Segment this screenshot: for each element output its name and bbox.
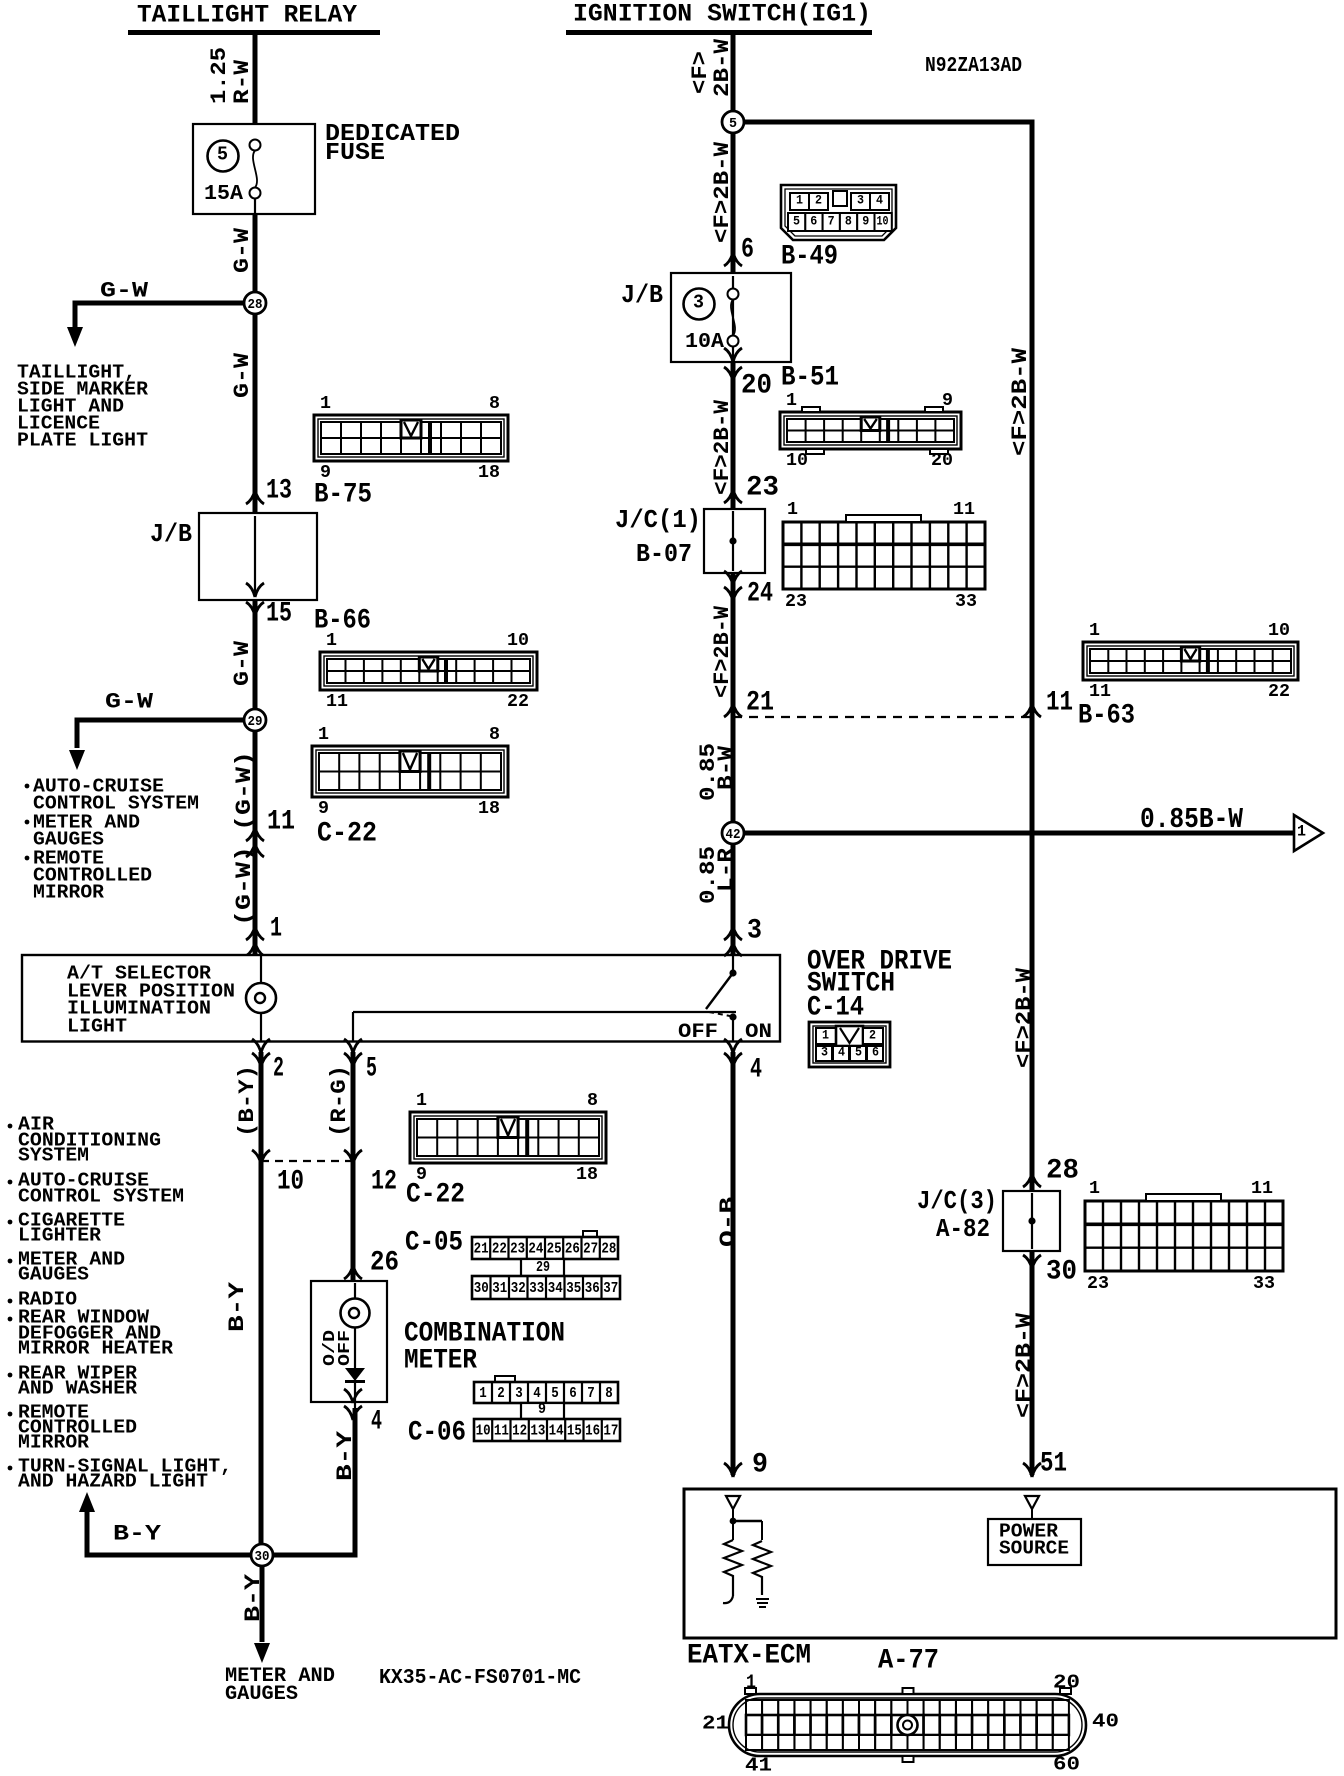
terminal triangle 9	[726, 1496, 740, 1509]
svg-text:B-63: B-63	[1078, 701, 1135, 732]
label <F>2B-W right c	[1012, 1312, 1037, 1418]
pin label 20	[741, 371, 772, 402]
pin label 3	[747, 916, 762, 947]
svg-text:30: 30	[1046, 1257, 1077, 1288]
svg-text:B-66: B-66	[314, 606, 371, 637]
label B-49	[781, 242, 838, 273]
svg-text:8: 8	[587, 1091, 598, 1111]
label ON	[745, 1021, 772, 1044]
pin label 1	[270, 914, 282, 945]
svg-text:FUSE: FUSE	[325, 140, 385, 167]
illumination lamp	[246, 983, 276, 1013]
pin label 11	[267, 807, 295, 838]
pin label 12	[371, 1167, 397, 1198]
svg-text:<F>2B-W: <F>2B-W	[710, 141, 735, 243]
svg-text:B-51: B-51	[781, 363, 839, 394]
wire 3 from node42 to switch	[731, 844, 736, 971]
svg-text:2B-W: 2B-W	[710, 38, 735, 97]
connector B-75	[314, 394, 508, 483]
label 0.85B-W horiz	[1140, 803, 1243, 836]
svg-text:15: 15	[567, 1422, 582, 1439]
svg-text:5: 5	[551, 1385, 559, 1402]
svg-text:(G-W): (G-W)	[232, 751, 257, 831]
connector C-14	[809, 1022, 890, 1067]
diode	[345, 1368, 365, 1382]
svg-text:23: 23	[746, 473, 779, 504]
svg-text:11: 11	[326, 692, 348, 712]
svg-text:22: 22	[507, 692, 529, 712]
svg-text:<F>2B-W: <F>2B-W	[1012, 967, 1037, 1068]
svg-text:5: 5	[217, 144, 228, 166]
label A-77	[878, 1646, 939, 1677]
label B-51	[781, 363, 839, 394]
svg-text:G-W: G-W	[230, 352, 255, 398]
pin 20 terminals	[724, 348, 742, 381]
wire into lamp	[260, 956, 262, 983]
svg-text:5: 5	[366, 1054, 377, 1085]
svg-text:7: 7	[587, 1385, 595, 1402]
svg-text:21: 21	[746, 688, 774, 719]
svg-text:7: 7	[828, 214, 835, 229]
wire 1.25R-W from taillight relay to fuse	[253, 35, 258, 126]
svg-text:G-W: G-W	[105, 690, 154, 715]
label J/B right	[621, 280, 663, 310]
svg-text:2: 2	[815, 193, 822, 208]
svg-text:12: 12	[371, 1167, 397, 1198]
label (B-Y) vertical	[235, 1065, 260, 1137]
wire G-W node28 to J/B	[253, 314, 258, 513]
svg-text:SOURCE: SOURCE	[999, 1538, 1069, 1560]
svg-text:10: 10	[786, 451, 808, 471]
svg-text:11: 11	[494, 1422, 509, 1439]
svg-text:33: 33	[1253, 1274, 1275, 1294]
connector B-07 grid	[783, 500, 985, 612]
svg-text:KX35-AC-FS0701-MC: KX35-AC-FS0701-MC	[379, 1667, 581, 1690]
bullet list auto-cruise meter mirror	[25, 776, 199, 904]
pin 24 terminals	[724, 571, 742, 601]
svg-text:B-Y: B-Y	[225, 1281, 250, 1332]
fuse F3 10A element	[728, 289, 739, 347]
label (R-G) vertical a	[327, 1065, 352, 1137]
svg-text:9: 9	[538, 1401, 546, 1418]
pin label 5	[366, 1054, 377, 1085]
svg-text:26: 26	[370, 1248, 399, 1279]
label A/T selector lever position illumination light	[67, 963, 235, 1038]
svg-text:21: 21	[474, 1240, 489, 1257]
label KX35-AC-FS0701-MC	[379, 1667, 581, 1690]
label (G-W) vertical e	[232, 846, 257, 926]
bullet list air conditioning etc	[8, 1114, 232, 1493]
label <F>2B-W seg3	[710, 605, 735, 698]
svg-text:16: 16	[585, 1422, 600, 1439]
svg-text:1: 1	[786, 391, 797, 411]
junction block J/B right box	[671, 273, 791, 362]
svg-text:11: 11	[953, 500, 975, 520]
label DEDICATED FUSE	[325, 121, 460, 167]
svg-text:ON: ON	[745, 1021, 772, 1044]
svg-text:AND HAZARD LIGHT: AND HAZARD LIGHT	[18, 1471, 208, 1493]
svg-text:2: 2	[869, 1028, 876, 1043]
svg-text:A-77: A-77	[878, 1646, 939, 1677]
connector B-63	[1083, 621, 1298, 702]
svg-text:8: 8	[845, 214, 852, 229]
svg-text:MIRROR: MIRROR	[18, 1432, 90, 1454]
label 1.25 R-W	[207, 47, 255, 104]
pin label 21	[746, 688, 774, 719]
svg-text:B-W: B-W	[714, 745, 739, 790]
label (G-W) vertical d	[232, 751, 257, 831]
terminal 12	[344, 1150, 362, 1164]
svg-text:EATX-ECM: EATX-ECM	[687, 1641, 811, 1672]
svg-text:3: 3	[693, 292, 704, 314]
svg-text:6: 6	[872, 1045, 879, 1060]
svg-text:1: 1	[326, 631, 337, 651]
svg-text:12: 12	[512, 1422, 527, 1439]
svg-text:B-75: B-75	[314, 480, 372, 511]
svg-text:(G-W): (G-W)	[232, 846, 257, 926]
wire inside box to switch	[353, 1012, 736, 1042]
svg-text:B-Y: B-Y	[113, 1522, 162, 1547]
svg-text:42: 42	[726, 827, 741, 843]
svg-text:8: 8	[489, 725, 500, 745]
svg-text:28: 28	[1046, 1156, 1079, 1187]
wire G-W fuse to node 28	[253, 214, 258, 292]
connector C-05	[472, 1231, 620, 1299]
svg-text:22: 22	[1268, 682, 1290, 702]
svg-text:23: 23	[1087, 1274, 1109, 1294]
wire B-Y from O/D to node30	[273, 1408, 355, 1558]
svg-text:17: 17	[603, 1422, 618, 1439]
svg-text:35: 35	[566, 1280, 581, 1297]
label <F>2B-W right a	[1008, 347, 1033, 456]
svg-text:23: 23	[510, 1240, 525, 1257]
svg-text:(B-Y): (B-Y)	[235, 1065, 260, 1137]
power source box	[988, 1509, 1081, 1565]
svg-text:J/B: J/B	[621, 280, 663, 310]
label OVER DRIVE SWITCH C-14	[807, 947, 952, 1024]
svg-text:20: 20	[1053, 1672, 1080, 1694]
svg-text:<F>2B-W: <F>2B-W	[710, 605, 735, 698]
svg-text:29: 29	[248, 714, 263, 730]
dedicated fuse box	[193, 124, 315, 214]
label 10A	[685, 331, 724, 354]
svg-text:B-49: B-49	[781, 242, 838, 273]
label OFF	[678, 1021, 718, 1044]
wire (F)2B-W right branch down	[1030, 120, 1035, 1192]
label G-W branch29	[105, 690, 154, 715]
svg-text:1: 1	[1089, 1179, 1100, 1199]
label O/D OFF vertical	[321, 1330, 355, 1366]
label G-W vertical b	[230, 352, 255, 398]
arrow to auto-cruise loads	[69, 750, 85, 770]
svg-text:L-R: L-R	[714, 847, 739, 892]
svg-text:4: 4	[533, 1385, 541, 1402]
O/D OFF indicator box	[311, 1281, 387, 1402]
svg-text:1: 1	[796, 193, 803, 208]
svg-text:28: 28	[601, 1240, 616, 1257]
svg-text:9: 9	[942, 391, 953, 411]
svg-text:6: 6	[569, 1385, 577, 1402]
svg-text:1: 1	[416, 1091, 427, 1111]
svg-text:MIRROR HEATER: MIRROR HEATER	[18, 1338, 174, 1360]
connector C-06	[474, 1376, 620, 1441]
label 0.85 B-W vertical	[696, 743, 739, 801]
svg-text:18: 18	[478, 799, 500, 819]
junction connector J/C(1) box	[704, 509, 765, 573]
svg-text:8: 8	[489, 394, 500, 414]
svg-text:AND WASHER: AND WASHER	[18, 1378, 138, 1400]
svg-text:11: 11	[1089, 682, 1111, 702]
pin 4 terminals bottom	[344, 1389, 362, 1420]
connector A-82 grid	[1085, 1179, 1283, 1294]
pin label 11 right	[1046, 688, 1073, 719]
svg-text:0.85B-W: 0.85B-W	[1140, 803, 1243, 836]
svg-text:34: 34	[548, 1280, 563, 1297]
node 29	[244, 709, 266, 731]
label taillight side marker	[17, 362, 149, 452]
svg-text:1: 1	[1089, 621, 1100, 641]
O/D OFF lamp	[341, 1299, 370, 1328]
wire (G-W) node29 to pin 11	[253, 731, 258, 955]
svg-text:C-14: C-14	[807, 993, 864, 1024]
svg-text:9: 9	[752, 1450, 768, 1481]
wire G-W branch left from node 28	[75, 301, 244, 329]
svg-text:IGNITION SWITCH(IG1): IGNITION SWITCH(IG1)	[573, 0, 871, 29]
connector B-49	[781, 185, 896, 240]
over drive switch lever	[706, 969, 737, 1041]
dashed link 10-12	[261, 1160, 353, 1162]
svg-text:(R-G): (R-G)	[327, 1065, 352, 1137]
svg-text:5: 5	[855, 1045, 862, 1060]
svg-text:36: 36	[585, 1280, 600, 1297]
label 0.85 L-R vertical	[696, 846, 739, 904]
pin 26 terminals	[344, 1265, 362, 1295]
svg-text:29: 29	[536, 1259, 550, 1276]
arrow to taillight loads	[67, 327, 83, 347]
svg-text:3: 3	[515, 1385, 523, 1402]
label B-Y vertical left	[225, 1281, 250, 1332]
A/T selector lever box	[22, 955, 780, 1042]
label N92ZA13AD	[925, 55, 1022, 78]
bus bar under IGNITION SWITCH	[566, 30, 872, 35]
svg-text:2: 2	[497, 1385, 505, 1402]
EATX-ECM box	[684, 1489, 1336, 1638]
svg-text:24: 24	[747, 579, 773, 610]
svg-text:OFF: OFF	[336, 1330, 355, 1366]
label B-Y vertical bottom	[241, 1573, 266, 1622]
svg-text:CONTROL SYSTEM: CONTROL SYSTEM	[18, 1186, 184, 1208]
pin 2 terminals	[252, 1039, 270, 1067]
pin 6 terminals	[724, 252, 742, 285]
fuse number circle 5	[208, 141, 239, 172]
pin label 51	[1040, 1449, 1067, 1480]
svg-text:B-07: B-07	[636, 539, 692, 569]
label <F> 2B-W top	[688, 38, 735, 97]
svg-text:C-22: C-22	[406, 1180, 465, 1211]
label C-22 second	[406, 1180, 465, 1211]
wire node5 to right branch	[744, 120, 1032, 125]
svg-text:40: 40	[1092, 1711, 1119, 1733]
svg-text:J/B: J/B	[150, 519, 192, 549]
svg-text:1: 1	[318, 725, 329, 745]
svg-text:11: 11	[1046, 688, 1073, 719]
wire node5 to J/B right	[731, 133, 736, 273]
pin label 2	[273, 1054, 284, 1085]
svg-text:10: 10	[1268, 621, 1290, 641]
label G-W vertical c	[230, 640, 255, 686]
svg-text:9: 9	[862, 214, 869, 229]
pin label 26	[370, 1248, 399, 1279]
node 28	[244, 292, 266, 314]
label <F>2B-W seg2	[710, 399, 735, 495]
label B-63	[1078, 701, 1135, 732]
arrow down meter and gauges	[254, 1643, 270, 1663]
svg-text:22: 22	[492, 1240, 507, 1257]
dashed link 21-11	[733, 716, 1032, 718]
svg-text:10A: 10A	[685, 331, 724, 354]
svg-text:2: 2	[273, 1054, 284, 1085]
pin label 6	[741, 235, 754, 266]
svg-text:21: 21	[702, 1713, 729, 1735]
svg-text:6: 6	[810, 214, 817, 229]
svg-text:G-W: G-W	[100, 279, 149, 304]
label J/B left	[150, 519, 192, 549]
svg-text:C-05: C-05	[405, 1228, 463, 1259]
pin 5 terminals	[344, 1039, 362, 1067]
pin 15 terminals	[246, 583, 264, 616]
svg-text:<F>2B-W: <F>2B-W	[1012, 1312, 1037, 1418]
svg-text:60: 60	[1053, 1754, 1080, 1776]
pin 28 terminal	[1023, 1173, 1041, 1187]
svg-text:23: 23	[785, 592, 807, 612]
node 30	[251, 1544, 273, 1566]
connector C-22 second	[410, 1091, 606, 1185]
svg-text:41: 41	[745, 1755, 772, 1776]
svg-text:B-Y: B-Y	[333, 1430, 358, 1481]
svg-text:SYSTEM: SYSTEM	[18, 1145, 89, 1167]
wire O-B down to EATX	[731, 1052, 736, 1475]
arrow connector 1 right	[1294, 815, 1323, 851]
pin label 9	[752, 1450, 768, 1481]
pin label 23	[746, 473, 779, 504]
label J/C(1) B-07	[615, 505, 701, 569]
svg-text:LIGHTER: LIGHTER	[18, 1225, 102, 1247]
svg-text:14: 14	[549, 1422, 564, 1439]
svg-text:18: 18	[576, 1165, 598, 1185]
wire (B-Y) pin2 down	[259, 1052, 264, 1544]
svg-text:6: 6	[741, 235, 754, 266]
terminal 11 right	[1023, 703, 1041, 717]
svg-text:51: 51	[1040, 1449, 1067, 1480]
pin 3 terminals	[724, 926, 742, 956]
wire B-Y node30 down	[260, 1566, 265, 1642]
svg-text:33: 33	[955, 592, 977, 612]
svg-text:GAUGES: GAUGES	[225, 1683, 298, 1706]
svg-text:1: 1	[746, 1672, 756, 1694]
svg-text:27: 27	[583, 1240, 598, 1257]
svg-text:10: 10	[507, 631, 529, 651]
bus bar under TAILLIGHT RELAY	[128, 30, 380, 35]
label C-05	[405, 1228, 463, 1259]
pin label 4 left	[371, 1407, 382, 1438]
pin label 24	[747, 579, 773, 610]
label B-66	[314, 606, 371, 637]
svg-text:10: 10	[277, 1167, 304, 1198]
svg-text:18: 18	[478, 463, 500, 483]
label G-W vertical a	[230, 227, 255, 273]
svg-text:LIGHT: LIGHT	[67, 1016, 127, 1038]
svg-text:10: 10	[476, 1422, 491, 1439]
label IGNITION SWITCH(IG1) title	[573, 0, 871, 29]
svg-text:C-06: C-06	[408, 1418, 466, 1449]
svg-text:33: 33	[529, 1280, 544, 1297]
svg-text:1: 1	[479, 1385, 487, 1402]
svg-text:4: 4	[838, 1045, 845, 1060]
pin 21 terminal	[724, 703, 742, 717]
terminal triangle 51	[1025, 1496, 1039, 1509]
node 42	[722, 822, 744, 844]
svg-text:3: 3	[857, 193, 864, 208]
svg-text:N92ZA13AD: N92ZA13AD	[925, 55, 1022, 78]
svg-text:3: 3	[747, 916, 762, 947]
svg-text:15: 15	[266, 599, 292, 630]
junction connector J/C(3) box	[1003, 1191, 1060, 1251]
label METER AND GAUGES	[225, 1665, 335, 1706]
svg-text:31: 31	[492, 1280, 507, 1297]
svg-text:1: 1	[1297, 823, 1306, 841]
label C-22 first	[317, 819, 377, 850]
svg-text:3: 3	[821, 1045, 828, 1060]
fuse circle 3	[684, 289, 715, 320]
pin 1 terminals	[246, 926, 264, 956]
svg-text:20: 20	[931, 451, 953, 471]
wire G-W branch left from node 29	[77, 718, 244, 749]
label 15A	[204, 183, 243, 206]
svg-text:1: 1	[270, 914, 282, 945]
svg-text:26: 26	[565, 1240, 580, 1257]
svg-text:G-W: G-W	[230, 227, 255, 273]
pin label 15	[266, 599, 292, 630]
svg-text:J/C(3): J/C(3)	[917, 1186, 997, 1216]
pin label 13	[266, 476, 292, 507]
svg-text:A-82: A-82	[936, 1214, 990, 1244]
pin label 10	[277, 1167, 304, 1198]
svg-text:13: 13	[530, 1422, 545, 1439]
wire J/C1 to node 42	[731, 573, 736, 822]
svg-text:15A: 15A	[204, 183, 243, 206]
wire J/B right to J/C1	[731, 362, 736, 509]
wire 0.85B-W to right edge	[744, 831, 1294, 836]
svg-text:MIRROR: MIRROR	[33, 882, 105, 904]
svg-text:METER: METER	[404, 1346, 477, 1377]
connector B-66	[320, 631, 537, 712]
svg-text:28: 28	[248, 297, 263, 313]
pin 13 terminals	[246, 490, 264, 523]
label O-B vertical	[716, 1197, 741, 1247]
fuse F5 15A element	[250, 140, 261, 215]
wire ignition to node 5	[731, 35, 736, 111]
label <F>2B-W seg1	[710, 141, 735, 243]
svg-text:1: 1	[320, 394, 331, 414]
svg-text:<F>2B-W: <F>2B-W	[1008, 347, 1033, 456]
svg-text:J/C(1): J/C(1)	[615, 505, 701, 535]
label COMBINATION METER	[404, 1319, 565, 1377]
junction block J/B left box	[199, 513, 317, 600]
svg-text:4: 4	[876, 193, 883, 208]
node 5	[722, 111, 744, 133]
wire (R-G) pin5 down	[351, 1052, 356, 1283]
wire B-Y branch left node30	[87, 1512, 251, 1558]
